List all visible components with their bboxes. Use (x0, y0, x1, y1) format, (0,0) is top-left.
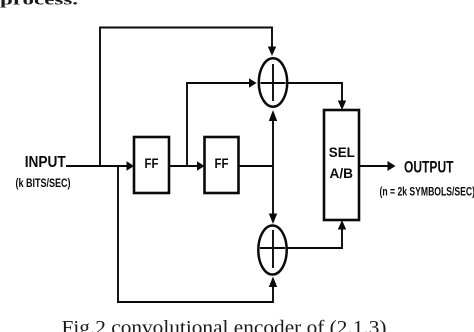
arrowhead down into adder U1 top (268, 47, 276, 57)
arrowhead into FF1 (127, 161, 135, 171)
flip-flop FF1 box (134, 137, 169, 193)
selector SEL A/B box (324, 110, 359, 220)
arrowhead up into adder U1 bottom (269, 110, 277, 121)
wire: vertical branch x=273 between adders (272, 121, 274, 214)
arrowhead up into SEL bottom (338, 220, 346, 230)
wire: top feedback from input node up and across (100, 28, 272, 167)
svg-text:(k BITS/SEC): (k BITS/SEC) (16, 176, 71, 190)
arrowhead into FF2 (197, 161, 205, 171)
adder U2 (XOR circle bottom) (258, 226, 286, 275)
svg-text:SEL: SEL (329, 144, 355, 160)
arrowhead down into SEL top (338, 101, 346, 111)
arrowhead down into adder U2 top (269, 214, 277, 225)
wire: adder U2 output to SEL bottom (287, 229, 343, 248)
arrowhead right into adder U1 left (249, 78, 257, 88)
svg-text:A/B: A/B (330, 165, 354, 181)
output arrowhead (388, 161, 396, 171)
wire: input horizontal line (66, 165, 128, 167)
svg-text:FF: FF (215, 155, 229, 171)
svg-text:process.: process. (0, 0, 78, 9)
svg-text:(n = 2k SYMBOLS/SEC): (n = 2k SYMBOLS/SEC) (380, 185, 474, 199)
flip-flop FF2 box (205, 137, 239, 193)
plus sign in U1 (261, 82, 286, 84)
wire: bottom feedback from input node down and across (118, 166, 273, 302)
wire: SEL output (359, 165, 388, 167)
svg-text:INPUT: INPUT (25, 154, 66, 171)
arrowhead up into adder U2 bottom (269, 277, 277, 288)
plus sign in U2 (260, 247, 285, 249)
wire: FF2 output to vertical branch (238, 165, 273, 167)
svg-text:Fig.2 convolutional encoder of: Fig.2 convolutional encoder of (2.1.3) (62, 318, 387, 332)
svg-text:OUTPUT: OUTPUT (404, 158, 454, 177)
wire: adder U1 output to SEL top (287, 83, 342, 101)
adder U1 (XOR circle top) (259, 58, 287, 106)
svg-text:FF: FF (145, 155, 159, 171)
wire: FF1 to FF2 (169, 165, 198, 167)
wire: tap between FF1 and FF2 up to adder U1 (187, 83, 249, 166)
